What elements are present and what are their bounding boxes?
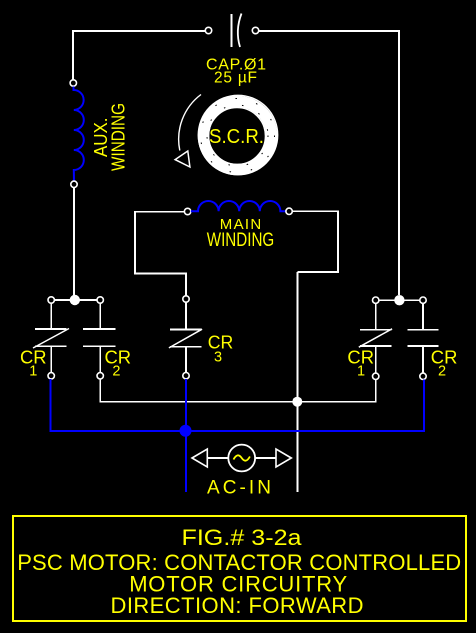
svg-text:FIG.# 3-2a: FIG.# 3-2a	[182, 525, 303, 550]
right CR2 top terminal	[420, 297, 426, 303]
left CR2 top terminal	[97, 297, 103, 303]
wire right contact bus	[379, 299, 420, 301]
wire main winding right leg	[292, 211, 338, 272]
left CR2 bottom terminal	[97, 373, 103, 379]
aux winding bottom terminal	[71, 181, 77, 187]
svg-text:AC-IN: AC-IN	[207, 478, 271, 499]
title block border	[13, 516, 466, 621]
contact CR2 right (NO)	[407, 303, 438, 373]
label AC-IN	[207, 478, 271, 499]
wire capacitor to right rail	[259, 31, 399, 295]
wire top-left horizontal to capacitor	[73, 31, 206, 80]
CR3 bottom terminal	[183, 373, 189, 379]
main winding left terminal	[184, 208, 190, 214]
node junction AC right	[292, 397, 302, 407]
rotation arrow head	[175, 151, 190, 167]
label CR 1 right	[347, 348, 374, 380]
svg-text:3: 3	[214, 350, 222, 366]
node junction AC left (blue)	[180, 425, 192, 437]
label WINDING main	[207, 230, 275, 251]
inductor L1 aux winding coil	[74, 87, 84, 182]
wire blue CR3 drop	[185, 379, 187, 492]
label CAP.01 value	[206, 57, 266, 87]
wire left contact bus	[54, 299, 97, 301]
left CR1 top terminal	[48, 297, 54, 303]
label CR 1	[20, 348, 47, 380]
label AUX.	[91, 118, 111, 158]
node junction left	[70, 295, 80, 305]
svg-text:DIRECTION: FORWARD: DIRECTION: FORWARD	[111, 593, 364, 618]
label MAIN	[220, 216, 262, 233]
wire white bus left CR2 to right CR1	[100, 379, 376, 402]
right CR1 bottom terminal	[373, 373, 379, 379]
label S.C.R.	[209, 126, 264, 148]
main winding right terminal	[286, 208, 292, 214]
capacitor C1 right terminal	[252, 27, 258, 33]
label CR 2	[105, 348, 132, 380]
AC left arrow	[192, 449, 228, 467]
aux winding top terminal	[70, 80, 76, 86]
inductor L2 main winding coil	[191, 201, 286, 211]
capacitor C1 plates	[232, 14, 242, 48]
AC right arrow	[255, 449, 291, 467]
node junction right	[394, 295, 404, 305]
svg-text:WINDING: WINDING	[207, 230, 275, 251]
label CR 3	[208, 333, 234, 366]
title line 2 PSC MOTOR	[17, 550, 461, 575]
SCR ring	[198, 95, 277, 174]
contact CR2 left (NO)	[83, 303, 116, 372]
svg-text:2: 2	[112, 364, 120, 380]
rotation arrow arc	[179, 95, 201, 151]
CR3 top terminal	[183, 296, 189, 302]
title line 4 DIRECTION FORWARD	[111, 593, 364, 618]
svg-text:1: 1	[357, 364, 365, 380]
wire main winding left leg	[135, 212, 186, 296]
title line 3 MOTOR CIRCUITRY	[129, 572, 347, 597]
left CR1 bottom terminal	[48, 373, 54, 379]
svg-text:25 µF: 25 µF	[214, 70, 257, 87]
wire right center rail	[297, 272, 299, 492]
wire aux winding to left node	[73, 188, 75, 296]
capacitor C1 left terminal	[205, 27, 211, 33]
contact CR1 right (NC)	[359, 303, 392, 373]
right CR1 top terminal	[373, 297, 379, 303]
svg-text:S.C.R.: S.C.R.	[209, 126, 264, 148]
svg-text:2: 2	[438, 364, 446, 380]
label WINDING vertical	[109, 103, 129, 171]
contact CR1 left (NC)	[33, 303, 69, 372]
wire blue bus left CR1 to right CR2	[50, 379, 424, 431]
right CR2 bottom terminal	[420, 373, 426, 379]
label CR 2 right	[431, 348, 458, 380]
title line 1 FIG.# 3-2a	[182, 525, 303, 550]
contact CR3 (NC)	[169, 302, 202, 372]
svg-text:WINDING: WINDING	[109, 103, 129, 171]
AC source G1	[228, 445, 255, 472]
svg-text:1: 1	[29, 364, 37, 380]
